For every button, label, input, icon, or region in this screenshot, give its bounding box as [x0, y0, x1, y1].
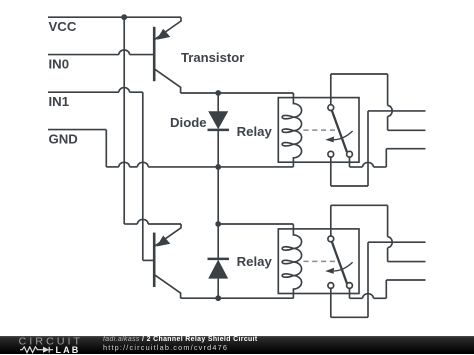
wire relay common down upper K2	[387, 205, 389, 237]
wire relay NO across right of hop K1	[373, 166, 386, 168]
wire hop GND over vertical A	[119, 162, 130, 167]
wire hop NO over NC vertical K2	[363, 294, 374, 299]
transistor Q2 base bar	[153, 233, 156, 287]
wire ch2 feed to transistor Q2	[148, 223, 181, 225]
wire relay NC down K1	[330, 157, 332, 186]
wire GND down	[105, 130, 107, 167]
terminal stub middle (common) K1	[388, 129, 426, 131]
relay NO contact K1	[347, 151, 353, 157]
wire vertical A (VCC rail down)	[123, 17, 125, 224]
wire GND rail between hops	[130, 166, 138, 168]
wire relay NC up K2	[367, 242, 369, 317]
wire relay NO across left of hop K1	[350, 166, 363, 168]
wire VCC terminal	[48, 16, 181, 18]
terminal stub top (NC) K2	[368, 241, 426, 243]
wire Q2 base	[143, 259, 154, 261]
wire hop IN0 over VCC vertical	[119, 50, 130, 55]
terminal stub top (NC) K1	[368, 110, 426, 112]
wire relay NO up K1	[385, 149, 387, 167]
footer bar	[0, 336, 474, 354]
wire relay NO up K2	[385, 280, 387, 298]
transistor Q1 base bar	[153, 27, 156, 81]
svg-text:Relay: Relay	[237, 254, 273, 269]
wire relay common down lower K2	[387, 248, 389, 262]
wire IN1 to vertical B	[130, 91, 143, 93]
wire GND branch down to ch2	[217, 167, 219, 224]
transistor Q1 emitter arrow (PNP)	[157, 29, 171, 40]
relay box K2	[278, 229, 359, 294]
wire ch2 emitter feed from vertical A	[124, 223, 137, 225]
relay box K1	[278, 98, 359, 163]
terminal stub middle (common) K2	[388, 261, 426, 263]
wire hop common over NC stub K1	[388, 106, 393, 117]
transistor Q2 emitter lead	[154, 224, 181, 247]
relay coil K1	[282, 93, 301, 167]
resistor zigzag	[20, 347, 43, 353]
CircuitLab logo	[19, 338, 94, 354]
wire GND rail left of hops	[106, 166, 119, 168]
diode D1 triangle	[208, 111, 228, 129]
relay common contact K1	[328, 105, 334, 111]
wire relay common down lower K1	[387, 116, 389, 130]
node collector2 / D2 anode junction	[215, 295, 221, 301]
relay actuator dashed line K2	[303, 260, 335, 262]
svg-text:Diode: Diode	[170, 115, 207, 130]
wire relay NC across K2	[331, 316, 368, 318]
node collector / D1 anode junction	[215, 90, 221, 96]
relay NC contact K2	[328, 283, 334, 289]
wire D2 cathode lead	[217, 224, 219, 259]
wire relay common up K1	[330, 74, 332, 105]
wire GND rail to diode D1	[148, 166, 218, 168]
node GND rail / D1 cathode junction	[215, 164, 221, 170]
wire D1 anode lead	[217, 93, 219, 112]
wire hop common over NC stub K2	[388, 237, 393, 248]
svg-text:Relay: Relay	[237, 124, 273, 139]
transistor Q2 collector lead	[154, 275, 180, 299]
wire vertical B (IN1 rail down)	[142, 92, 144, 260]
wire relay NO down K2	[349, 288, 351, 298]
relay common contact K2	[328, 236, 334, 242]
wire GND rail to relay K1 coil	[218, 166, 293, 168]
wire Q2 collector to coil K2	[181, 297, 294, 299]
wire relay common top across K2	[331, 204, 388, 206]
wire Q1 collector to coil K1	[181, 92, 294, 94]
wire GND terminal	[48, 129, 106, 131]
wire relay common down upper K1	[387, 74, 389, 106]
wire ch2 coil feed	[218, 223, 293, 225]
wire IN0 terminal left of hop	[48, 54, 119, 56]
relay armature K1	[332, 111, 347, 152]
relay NC contact K1	[328, 151, 334, 157]
diode D2 cathode bar	[208, 258, 230, 261]
wire relay NC across K1	[331, 185, 368, 187]
svg-text:GND: GND	[49, 132, 78, 147]
wire D2 anode lead	[217, 279, 219, 299]
wire hop GND over vertical B	[137, 162, 148, 167]
diode D1 cathode bar	[208, 129, 230, 132]
wire relay common up K2	[330, 205, 332, 236]
wire relay NC down K2	[330, 288, 332, 317]
wire relay NC up K1	[367, 111, 369, 186]
relay coil K2	[282, 224, 301, 298]
node VCC junction	[121, 14, 127, 20]
transistor Q1 emitter lead	[154, 17, 181, 40]
transistor Q1 collector lead	[154, 69, 180, 93]
svg-text:VCC: VCC	[49, 19, 77, 34]
svg-text:IN0: IN0	[49, 57, 70, 72]
node ch2 feed junction	[215, 221, 221, 227]
wire relay common top across K1	[331, 73, 388, 75]
wire relay NO across right of hop K2	[373, 297, 386, 299]
svg-text:Transistor: Transistor	[181, 50, 244, 65]
relay actuation arrow K2	[334, 262, 353, 271]
relay actuator dashed line K1	[303, 129, 335, 131]
wire relay NO down K1	[349, 157, 351, 167]
relay actuation arrow K1	[334, 131, 353, 140]
svg-text:IN1: IN1	[49, 94, 70, 109]
wire hop IN1 over VCC vertical	[119, 88, 130, 93]
wire hop NO over NC vertical K1	[363, 162, 374, 167]
wire IN0 to transistor Q1 base	[130, 54, 154, 56]
terminal stub bottom (NO) K2	[386, 279, 425, 281]
terminal stub bottom (NO) K1	[386, 148, 425, 150]
wire hop ch2 feed over vertical B	[137, 219, 148, 224]
relay armature K2	[332, 242, 347, 283]
wire relay NO across left of hop K2	[350, 297, 363, 299]
diode symbol	[49, 347, 53, 353]
wire D1 cathode lead	[217, 130, 219, 167]
wire IN1 terminal left of hop	[48, 91, 119, 93]
transistor Q2 emitter arrow (PNP)	[157, 236, 171, 247]
diode D2 triangle	[208, 260, 228, 279]
relay NO contact K2	[347, 283, 353, 289]
